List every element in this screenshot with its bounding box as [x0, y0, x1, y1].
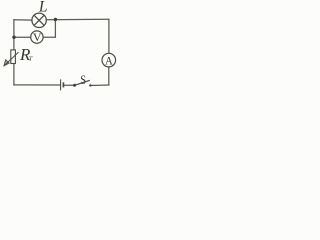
wire voltmeter branch left	[14, 36, 31, 38]
rheostat RT arrowhead	[4, 60, 9, 66]
rheostat RT arrow shaft	[4, 52, 19, 66]
lamp L (circle with cross)	[32, 13, 46, 27]
svg-text:S: S	[80, 73, 86, 87]
wire left vertical upper	[13, 20, 15, 50]
battery short thick plate	[62, 82, 64, 87]
svg-text:T: T	[29, 56, 33, 63]
wire voltmeter branch right + vertical to top junction	[43, 20, 55, 38]
wire top-right horizontal	[46, 18, 109, 21]
rheostat RT body	[11, 50, 16, 64]
wire switch to bottom-right corner	[90, 84, 109, 87]
switch S pivot dot	[73, 84, 76, 87]
svg-text:A: A	[105, 55, 114, 68]
wire right vertical lower	[108, 67, 110, 85]
wire top-left horizontal	[14, 19, 32, 21]
svg-text:L: L	[38, 0, 48, 15]
switch S right terminal	[89, 84, 91, 86]
wire battery to switch	[64, 84, 74, 86]
switch S lever	[75, 80, 90, 85]
battery long plate	[60, 79, 62, 90]
svg-text:V: V	[33, 30, 42, 44]
wire bottom-left horizontal	[14, 84, 60, 86]
wire left vertical lower	[13, 64, 15, 85]
node junction left (voltmeter tap on left wire)	[12, 36, 15, 39]
node junction top (voltmeter tap on top wire)	[54, 18, 57, 21]
ammeter A	[102, 53, 116, 67]
voltmeter V	[31, 31, 43, 43]
wire right vertical upper	[108, 19, 110, 53]
background	[0, 0, 120, 97]
